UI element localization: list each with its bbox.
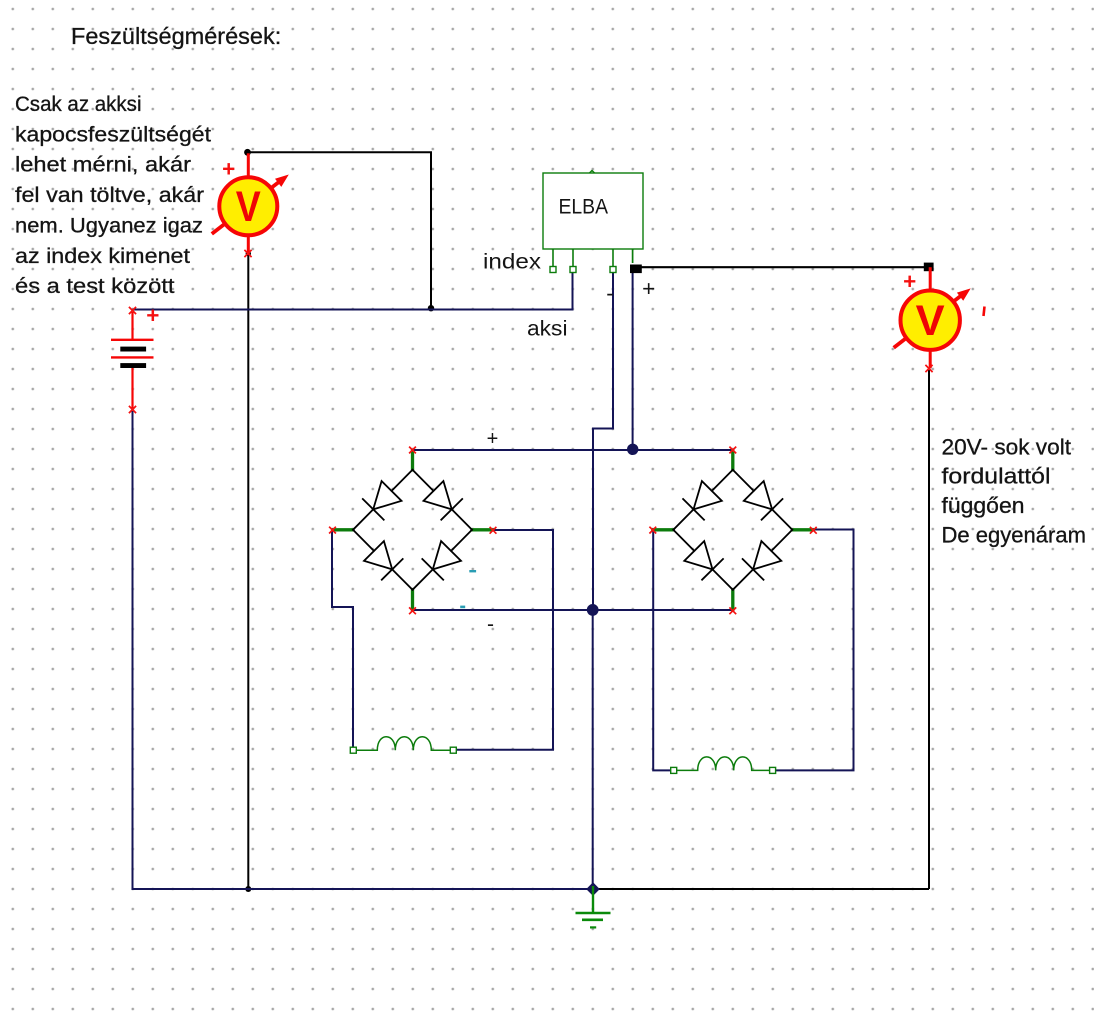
voltmeter V1 <box>212 153 289 254</box>
regulator box U1 ELBA <box>543 171 643 250</box>
wire: left bridge AC2 loop to inductor L1 <box>456 530 553 750</box>
solder square at ELBA pin4 <box>630 265 642 274</box>
svg-text:fordulattól: fordulattól <box>942 464 1051 489</box>
svg-text:az index kimenet: az index kimenet <box>15 244 190 268</box>
battery top pin marker <box>129 307 136 314</box>
ELBA pin 2 aksi <box>570 249 576 273</box>
BR1 plus pin marker <box>409 447 416 454</box>
small teal artifact dash 2 <box>460 606 465 609</box>
svg-text:nem. Ugyanez igaz: nem. Ugyanez igaz <box>15 213 203 237</box>
diode D5 <box>673 470 733 530</box>
wire: right bridge AC1 loop to inductor L2 <box>653 531 671 770</box>
svg-text:-: - <box>606 281 614 306</box>
diode D8 <box>733 530 793 590</box>
bridge rectifier BR1 <box>333 450 493 610</box>
wire: left bridge AC1 loop to inductor L1 <box>332 531 353 747</box>
svg-text:+: + <box>146 303 159 328</box>
voltmeter V2 minus pin marker <box>925 365 932 372</box>
junction dot at plus node <box>627 444 638 455</box>
battery bottom pin marker <box>129 406 136 413</box>
wire: ELBA pin4 down to plus node <box>632 271 634 450</box>
inductor L1 <box>350 737 456 754</box>
svg-text:+: + <box>222 157 235 182</box>
svg-text:lehet mérni, akár: lehet mérni, akár <box>15 153 191 177</box>
diode D2 <box>413 470 473 530</box>
wire: bottom ground rail left (navy) <box>132 888 594 890</box>
solder square at voltmeter V2 top <box>924 263 934 272</box>
svg-text:és a test között: és a test között <box>15 274 175 298</box>
svg-text:Feszültségmérések:: Feszültségmérések: <box>71 23 281 49</box>
bridge rectifier BR2 <box>653 450 813 610</box>
small teal artifact dash 1 <box>469 570 476 572</box>
BR2 minus pin marker <box>729 607 736 614</box>
junction dot at V1 top <box>244 149 251 156</box>
BR1 minus pin marker <box>409 607 416 614</box>
svg-text:20V- sok volt: 20V- sok volt <box>942 434 1072 459</box>
BR1 ac2 pin marker <box>490 527 497 534</box>
svg-text:kapocsfeszültségét: kapocsfeszültségét <box>15 122 211 146</box>
diode D1 <box>353 470 413 530</box>
small red tick near V2 <box>984 307 985 317</box>
diode D4 <box>413 530 473 590</box>
ground junction diamond <box>586 882 600 896</box>
diode D7 <box>673 530 733 590</box>
BR1 ac1 pin marker <box>329 527 336 534</box>
BR2 ac2 pin marker <box>810 527 817 534</box>
ELBA pin 3 <box>610 249 616 273</box>
svg-text:függően: függően <box>942 493 1025 518</box>
ELBA pin 4 <box>632 249 634 263</box>
inductor L2 <box>671 757 776 774</box>
wire: plus rail between bridges <box>413 449 734 451</box>
svg-text:index: index <box>483 251 542 274</box>
battery B1 <box>111 312 154 408</box>
wire: ELBA pin4 to voltmeter V2 (black) <box>633 266 928 268</box>
wire: minus rail between bridges <box>413 609 734 611</box>
svg-text:-: - <box>487 613 494 636</box>
voltmeter V2 <box>894 267 971 368</box>
svg-text:+: + <box>642 276 655 301</box>
svg-text:+: + <box>903 269 916 294</box>
junction dot on battery rail <box>428 305 434 311</box>
wire: center vertical minus node to ground <box>592 610 594 889</box>
wire: voltmeter V1 plus to battery rail node (black) <box>248 152 432 308</box>
wire: battery plus rail to ELBA pin aksi <box>133 272 573 310</box>
note text block right <box>942 434 1087 547</box>
ground symbol <box>576 886 611 927</box>
svg-text:V: V <box>916 297 945 345</box>
svg-text:De egyenáram: De egyenáram <box>942 523 1087 548</box>
svg-text:Csak az akksi: Csak az akksi <box>15 92 142 116</box>
svg-text:aksi: aksi <box>527 316 568 340</box>
junction dot at ground rail left <box>245 886 251 892</box>
wire: voltmeter V2 minus down to ground rail (black) <box>928 370 930 889</box>
ELBA pin 1 <box>550 249 556 273</box>
wire: voltmeter V1 minus down to ground rail (black) <box>247 254 249 890</box>
junction dot V1 minus <box>246 251 251 256</box>
svg-text:ELBA: ELBA <box>559 195 609 218</box>
voltmeter V1 minus pin marker <box>244 250 251 257</box>
wire: right bridge AC2 loop to inductor L2 <box>776 530 854 771</box>
wire: ELBA pin3 to minus node <box>593 273 613 610</box>
BR2 ac1 pin marker <box>649 527 656 534</box>
diode D3 <box>353 530 413 590</box>
svg-text:V: V <box>236 183 261 231</box>
pin stubs <box>333 450 493 610</box>
note text block left <box>15 92 211 298</box>
wire: bottom ground rail right (black) <box>593 888 929 890</box>
junction dot at minus node <box>587 604 599 616</box>
BR2 plus pin marker <box>729 447 736 454</box>
diode D6 <box>733 470 793 530</box>
svg-text:+: + <box>487 428 499 450</box>
wire: battery minus down <box>132 411 134 889</box>
pin stubs <box>653 450 813 610</box>
svg-text:fel van töltve, akár: fel van töltve, akár <box>15 183 204 207</box>
